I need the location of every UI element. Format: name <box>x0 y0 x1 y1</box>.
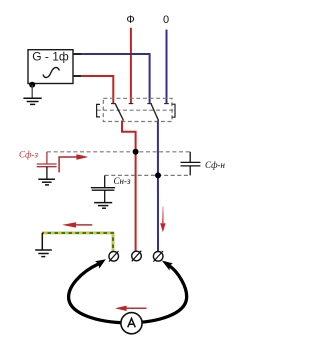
ground generator stem <box>31 85 33 99</box>
ground earth symbol <box>35 250 52 257</box>
test-lead right arrowhead <box>162 261 173 271</box>
ground generator symbol <box>23 98 41 104</box>
svg-text:G - 1ф: G - 1ф <box>32 50 69 64</box>
capacitor Cф-н <box>181 152 201 176</box>
terminal 1 (earth) <box>109 251 119 262</box>
net 2 dashed (neutral-earth) <box>105 174 191 176</box>
wire phase Ф vertical <box>130 28 132 104</box>
junction dot red on net1 <box>133 149 139 155</box>
ground Cф-з stem <box>46 167 48 180</box>
current arrow left above green wire <box>76 224 92 226</box>
junction dot on generator bottom <box>29 82 35 88</box>
svg-text:Сн-з: Сн-з <box>114 176 131 186</box>
net 1 dashed (phase-earth) <box>47 151 190 153</box>
wire generator red stub <box>73 75 81 77</box>
terminal 2 (phase) <box>132 251 142 262</box>
svg-text:0: 0 <box>163 14 169 26</box>
switch S1 dashed box <box>103 98 172 121</box>
switch linkage dashed line <box>97 109 175 111</box>
wire generator blue output <box>73 54 150 103</box>
wire green-yellow earth <box>42 233 113 251</box>
svg-text:Ф: Ф <box>126 14 134 26</box>
test-lead left arrowhead <box>95 259 106 268</box>
switch blade pole 2 <box>151 104 159 121</box>
svg-text:Сф-н: Сф-н <box>205 160 225 170</box>
terminal 3 (neutral) <box>153 251 163 262</box>
switch contact ticks <box>111 103 169 105</box>
ammeter A <box>121 313 142 334</box>
svg-text:Сф-з: Сф-з <box>19 150 38 160</box>
switch blade pole 1 <box>115 104 123 121</box>
current arrow L-shaped red <box>59 157 77 172</box>
generator sine symbol <box>43 68 60 78</box>
wire generator blue stub <box>73 53 81 55</box>
ground Cф-з symbol <box>38 179 55 185</box>
thick test-lead loop <box>69 264 187 323</box>
wire neutral 0 vertical <box>166 30 168 104</box>
current arrow left above ammeter <box>127 307 147 309</box>
switch linkage right bracket <box>172 104 175 117</box>
wire red switch output <box>122 121 136 251</box>
ground Cн-з symbol <box>94 203 112 209</box>
generator U1 box <box>28 50 73 84</box>
wire blue switch output <box>157 121 159 252</box>
switch linkage left bracket <box>97 104 100 117</box>
wire generator red output <box>73 76 113 103</box>
capacitor Cф-з <box>37 152 57 167</box>
capacitor Cн-з <box>91 175 115 202</box>
junction dot blue on net2 <box>155 172 161 178</box>
ground earth wire stem <box>41 233 43 250</box>
